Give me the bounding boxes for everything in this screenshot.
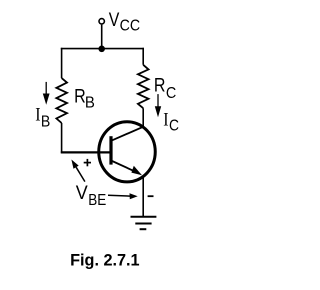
wire VCC terminal to junction <box>101 25 103 49</box>
VCC terminal <box>99 19 104 24</box>
arrow IC <box>157 94 159 108</box>
VBE arrow to base (up-left) <box>76 167 85 181</box>
svg-text:CC: CC <box>120 18 141 35</box>
wire left riser to RB <box>61 48 63 78</box>
ground <box>131 216 157 218</box>
svg-text:B: B <box>85 94 95 111</box>
transistor Q1 collector line <box>111 127 143 141</box>
VBE arrow to emitter (right) <box>108 194 131 197</box>
wire emitter to ground <box>142 175 144 216</box>
svg-text:C: C <box>169 118 179 135</box>
svg-text:Fig. 2.7.1: Fig. 2.7.1 <box>70 250 140 269</box>
svg-text:C: C <box>166 85 176 102</box>
wire RC bottom to collector <box>142 108 144 127</box>
svg-text:R: R <box>154 76 166 97</box>
resistor RC <box>138 65 149 108</box>
plus sign <box>84 162 91 164</box>
transistor Q1 base bar <box>109 136 112 164</box>
svg-text:V: V <box>76 183 88 204</box>
wire to base <box>61 151 111 153</box>
minus sign <box>148 195 154 197</box>
wire right riser to RC <box>142 48 144 65</box>
arrow IB <box>45 82 47 96</box>
transistor Q1 emitter line with arrow <box>111 161 137 173</box>
svg-text:B: B <box>41 114 50 131</box>
wire RB bottom down <box>61 123 63 153</box>
svg-text:V: V <box>109 10 120 31</box>
svg-text:BE: BE <box>88 192 106 209</box>
node junction dot <box>98 46 105 53</box>
resistor RB <box>56 78 67 123</box>
transistor Q1 circle <box>99 122 156 182</box>
svg-text:I: I <box>35 104 40 125</box>
svg-text:I: I <box>163 110 168 131</box>
wire top rail <box>61 48 144 50</box>
